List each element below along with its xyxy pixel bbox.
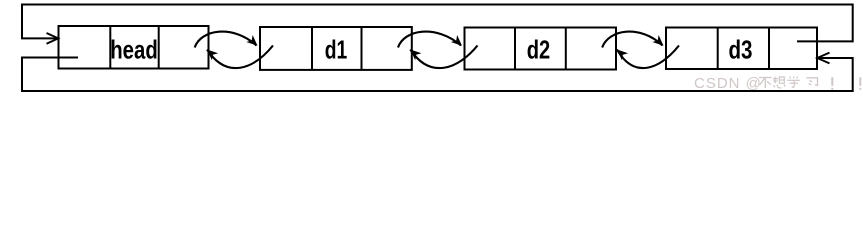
watermark: CSDN @ (latin part) (694, 75, 762, 92)
curved arrow: d3.prev to d2 (lower arc) (614, 46, 679, 69)
svg-text:d3: d3 (729, 34, 753, 64)
wire: bottom wrap-around (head.prev to d3) left/bottom/right segments (22, 58, 853, 92)
curved arrow: d1.prev to head (lower arc) (204, 46, 273, 69)
svg-text:d2: d2 (527, 34, 551, 64)
node head: prev | head | next (59, 26, 209, 69)
svg-text:head: head (110, 34, 158, 64)
wire: top wrap-around (d3.next to head) right/top/left segments (22, 5, 853, 42)
arrowhead into head node (points right) (47, 33, 59, 44)
node d1 (260, 27, 412, 70)
curved arrow: d2.next to d3 (upper arc) (602, 32, 666, 50)
watermark glyph: 想 (773, 77, 785, 88)
svg-text:CSDN @: CSDN @ (694, 75, 762, 92)
node d3 (666, 28, 817, 70)
curved arrow: d2.prev to d1 (lower arc) (407, 46, 477, 69)
node d2 (465, 28, 617, 70)
watermark glyph: 学 (787, 76, 800, 87)
watermark glyph: 不 (759, 78, 772, 89)
svg-text:d1: d1 (325, 34, 348, 64)
curved arrow: head.next to d1 (upper arc) (195, 32, 261, 50)
arrowhead into d3 node (points left) (817, 53, 829, 64)
curved arrow: d1.next to d2 (upper arc) (398, 32, 465, 50)
watermark glyph: 习 (807, 78, 818, 86)
watermark glyphs: two fullwidth exclamation marks (831, 77, 861, 90)
